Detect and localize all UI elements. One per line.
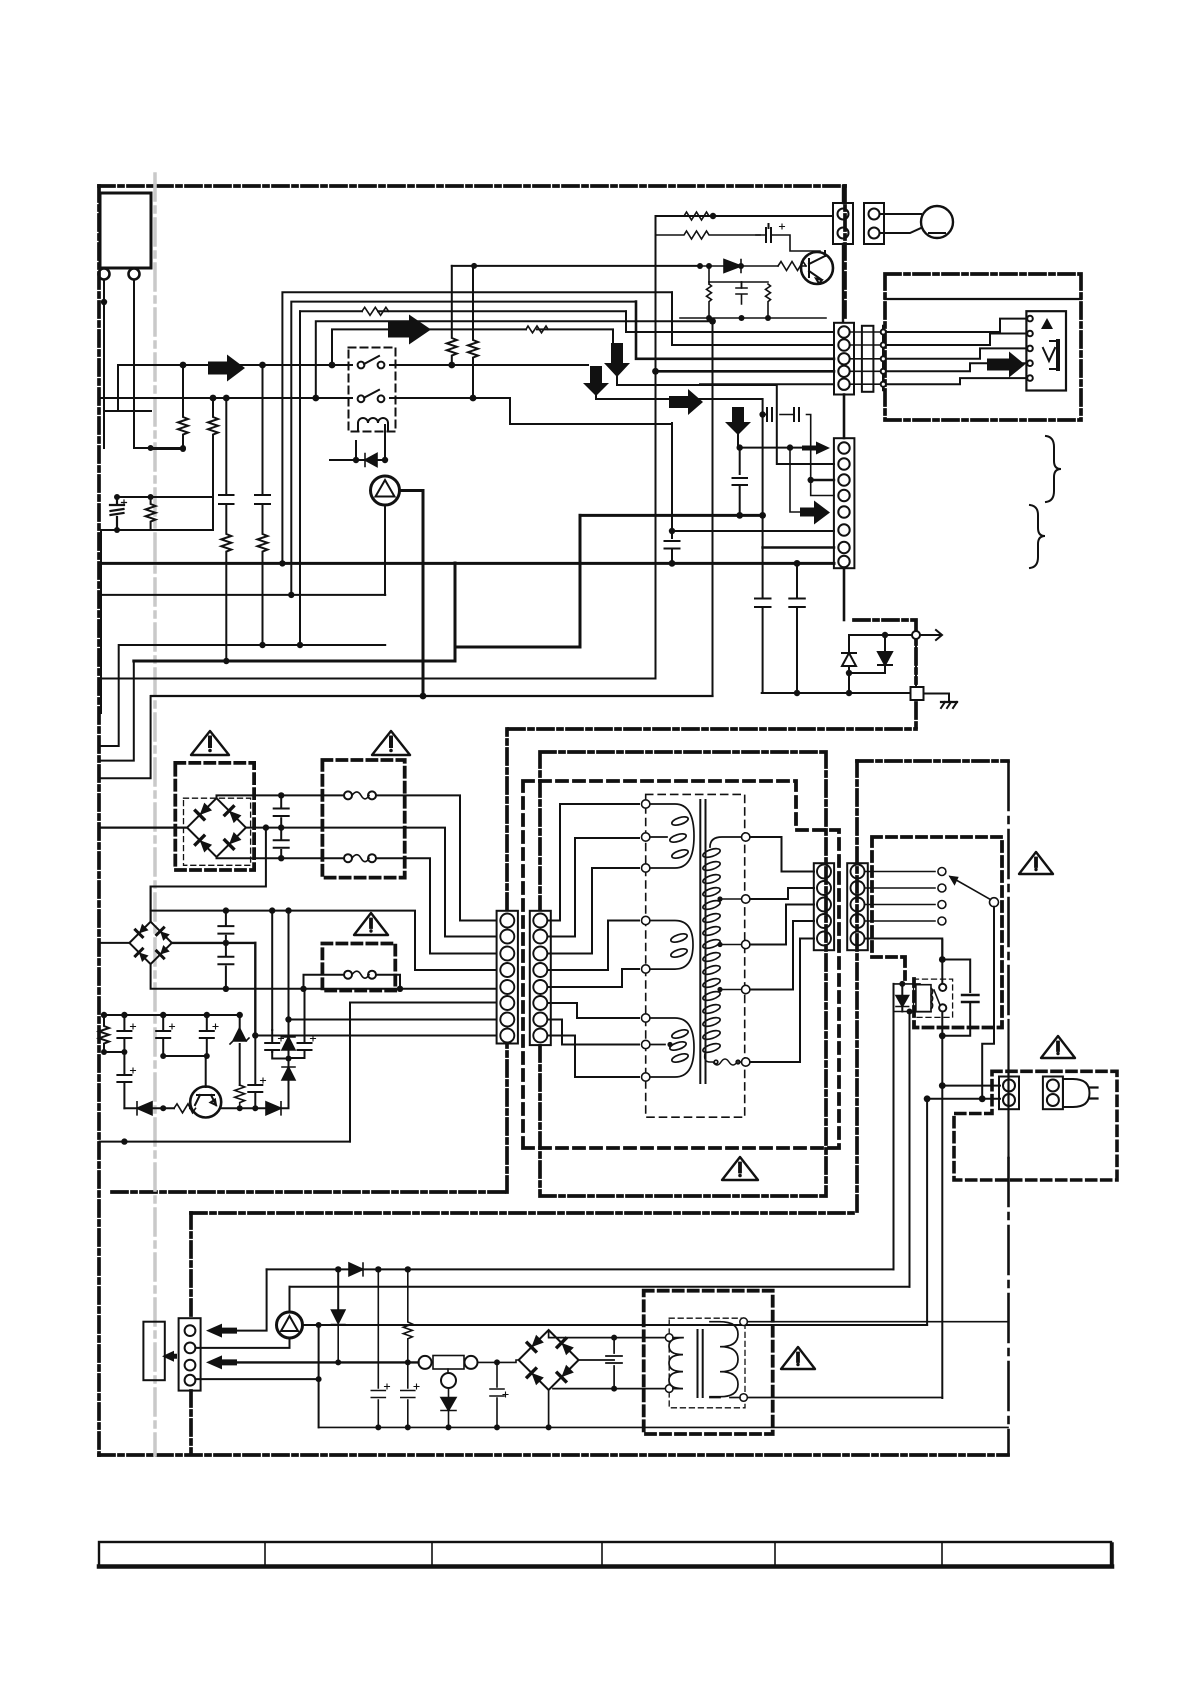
bridge1 wiring — [99, 792, 496, 936]
resistor x=104 — [99, 1015, 124, 1052]
core — [700, 800, 705, 1083]
long wires down — [893, 984, 895, 1270]
bridge 3 — [519, 1330, 579, 1390]
primary taps — [642, 800, 650, 1081]
motor — [921, 206, 953, 238]
right of transistor — [221, 1080, 289, 1108]
left border — [97, 186, 101, 1455]
down arrow3 stem to cap to thick rail — [733, 434, 748, 515]
wires conn2 right to transformer primary taps — [548, 804, 640, 1077]
thick right arrow into volume box — [987, 352, 1025, 378]
small circle column — [882, 326, 885, 390]
wires after arrows — [596, 213, 834, 679]
IC box top-left — [99, 193, 152, 448]
AC inlet connector — [999, 1077, 1098, 1110]
relay dashed box — [349, 348, 396, 432]
core — [698, 1330, 703, 1397]
diode left — [896, 996, 909, 1007]
cap x=305.5 — [289, 989, 312, 1058]
rail y=988.8 — [151, 964, 496, 989]
top area wires — [99, 292, 713, 661]
transistor cluster top right — [656, 215, 834, 217]
resistor on wire3 — [362, 307, 389, 315]
warning triangle above fuse 1 — [372, 731, 410, 755]
warning triangle below transformer — [722, 1157, 758, 1180]
warning triangle above fuse 2 — [354, 913, 388, 935]
transformer2 right wires — [747, 1322, 1008, 1398]
bottom rail — [319, 1426, 1008, 1428]
transformer T1 — [649, 800, 742, 1083]
bias feed wire y=266 with verticals — [447, 263, 700, 398]
right lower border (thin dash-dot) — [1007, 762, 1010, 1020]
connector 1 to connector 2 link — [843, 395, 846, 439]
inner top line — [885, 298, 1081, 300]
secondary coil (right, bulge right) — [710, 1322, 738, 1397]
selector wires and contacts — [865, 868, 999, 1099]
left rect + connector — [143, 1322, 164, 1381]
cap x=207 — [200, 1015, 214, 1056]
arrow row5 — [800, 501, 830, 525]
wire into thermal — [478, 1360, 519, 1362]
switch line 2 — [99, 398, 672, 424]
verticals down — [271, 911, 273, 1030]
pin wires down — [103, 280, 105, 448]
connector circle4 wire — [196, 1378, 319, 1380]
resistor — [146, 497, 156, 530]
thick rail y=563.4 — [455, 562, 834, 565]
bottom section — [143, 1263, 909, 1391]
thick arrow right on switch wire1 — [208, 355, 245, 382]
coil to diode wires — [356, 425, 385, 460]
power switch box top — [857, 759, 1008, 763]
thick rail y=515.4 — [580, 514, 763, 517]
long left wires — [99, 318, 716, 778]
motor connector boxes — [833, 203, 953, 244]
bracket bar — [1056, 341, 1060, 369]
big down arrow 1 — [604, 343, 630, 377]
wires from small circles to box — [886, 319, 1027, 332]
wire y=266 with diode and resistor to transistor — [700, 265, 806, 267]
fuse box 2 — [322, 944, 395, 991]
verticals going down to transformer area — [712, 321, 714, 696]
bridge 1 dashed boxes — [175, 763, 254, 870]
shield left vertical mid section — [505, 729, 509, 1192]
AC dashed box — [954, 1071, 1117, 1180]
big dashed box around transformer — [523, 781, 839, 1148]
diode x=338.2 — [337, 1269, 339, 1310]
diode under relay — [365, 454, 377, 467]
big right arrow mid — [669, 389, 703, 415]
inner bottom box left — [189, 1213, 193, 1452]
power switch box left / inner bottom right edge — [855, 761, 859, 1213]
cap right — [962, 995, 979, 1002]
vertical x=378.3 with cap — [371, 1269, 385, 1427]
opto right corner down — [303, 1325, 319, 1427]
cap x=124 — [117, 1015, 131, 1052]
shield stub to ground square — [854, 620, 916, 729]
opto triac circle — [371, 476, 400, 505]
cap+res chain x=262 — [255, 365, 270, 645]
connector strip 2 (8 circles) — [834, 438, 855, 620]
up triangle — [1041, 318, 1053, 329]
fuse box 1 — [322, 760, 404, 878]
cap+res chain x=226 — [219, 398, 234, 661]
long wires A-D joining bottom — [267, 1268, 894, 1270]
resistor x=240 — [235, 1085, 245, 1108]
cap x=497 — [490, 1362, 504, 1427]
warning triangle bottom — [781, 1347, 815, 1369]
wires into AC inlet — [927, 1086, 1000, 1099]
connector strip 1 (5 circles) — [834, 323, 886, 438]
left small cluster — [99, 445, 213, 713]
secondary outline top — [710, 837, 742, 847]
bridge rectifier 1 — [187, 798, 246, 857]
primary group 1 outline — [649, 804, 694, 868]
vertical x=407.8 resistor + cap — [401, 1269, 415, 1427]
warning triangle right of selector — [1019, 852, 1053, 874]
thick wire row3 y=1362.4 — [238, 1361, 419, 1363]
warning triangle above bridge 1 — [191, 731, 229, 755]
zener B filled down — [878, 652, 892, 665]
diode right y=1108 — [266, 1102, 281, 1115]
connector feed rows lower — [350, 1003, 496, 1142]
staircase corners going right — [282, 292, 672, 563]
row1 via arrow — [740, 447, 816, 449]
wires left of motor connector — [842, 186, 844, 322]
resistor x=183 — [151, 365, 188, 449]
transformer 2 — [644, 1291, 773, 1434]
cap x=163 — [156, 1015, 207, 1056]
braces — [1030, 436, 1061, 568]
top rail — [104, 1014, 240, 1016]
narrow ribbon box — [862, 326, 874, 392]
warning triangle above AC inlet — [1041, 1036, 1075, 1058]
zener pair + ground — [842, 630, 957, 708]
thick L structures mid — [454, 563, 457, 661]
wire (switch line 1) — [118, 364, 352, 366]
ground symbol — [941, 701, 957, 703]
bridge rectifier 2 — [99, 887, 496, 1038]
right motor control box content — [885, 299, 1081, 391]
base row y=1108 — [124, 1107, 191, 1109]
transformer dashed box — [646, 794, 745, 1117]
row5 wire to vertical — [865, 939, 943, 960]
zener x=240 — [230, 1028, 249, 1044]
shield boundary horizontal above bottom section — [112, 1190, 507, 1194]
plug — [1043, 1077, 1063, 1110]
thermal protector — [419, 1356, 432, 1369]
esd square — [911, 687, 924, 700]
secondary petals — [702, 847, 721, 859]
lower-left regulator cluster — [99, 989, 316, 1118]
junction dots on switch lines — [180, 362, 187, 369]
middle connector pair — [497, 911, 551, 1045]
relay switches — [330, 356, 388, 463]
rail y=910.6 — [151, 911, 496, 970]
wires rows into conn1 left — [626, 311, 834, 384]
top border — [99, 184, 845, 188]
transistor — [801, 252, 833, 284]
wire corners into connector rows — [672, 292, 834, 345]
primary coil (left, bulge left) — [669, 1338, 683, 1389]
relay 2 area — [894, 940, 1001, 1398]
volume unit box — [1026, 311, 1066, 390]
wire A corner down to arrow row1 — [237, 1269, 267, 1330]
wire bridge bottom to rail 1388 — [553, 1388, 614, 1390]
inner bottom box top — [191, 1211, 857, 1215]
caps x=281.2 — [274, 795, 289, 858]
resistor x=213 — [208, 398, 218, 497]
cap x=672 chain — [665, 423, 680, 563]
wires to connector 2 — [455, 408, 911, 696]
primary group 2 outline — [649, 921, 693, 970]
wire from relay switch1 right — [390, 364, 588, 366]
cap x=614 — [606, 1338, 622, 1389]
big down arrow 3 — [725, 407, 751, 435]
group1 petals — [671, 815, 689, 827]
relay coil box — [916, 985, 931, 1012]
opto 2 — [277, 1312, 303, 1338]
cap x=254.5 — [248, 1036, 262, 1109]
right connector pair A/B — [814, 863, 868, 950]
inner mid dash-dot box — [540, 752, 826, 1196]
relay coil — [358, 418, 388, 431]
short links — [850, 332, 880, 384]
relay light dashed box — [914, 979, 953, 1017]
thick arrow right on wire5 area — [388, 315, 431, 345]
bottom border — [99, 1453, 1008, 1457]
top-right vertical border piece — [843, 186, 847, 322]
diode stack x=289.6 — [282, 1037, 295, 1050]
big down arrow 2 — [583, 366, 609, 396]
vertical x=656 from top border down — [655, 216, 657, 679]
secondary bottom squiggle — [705, 1053, 741, 1065]
diode on wire A — [349, 1263, 363, 1276]
V mark — [1043, 348, 1055, 361]
gray center dash-dot line — [153, 174, 157, 1455]
main block boundary (dash-dot) — [99, 186, 1081, 1455]
rail top y=282 and bottom y=318 — [680, 282, 826, 318]
caps pair chain to row4 — [763, 415, 834, 496]
resistor on arrow wire — [526, 326, 548, 333]
primary group 3 outline — [649, 1018, 694, 1077]
cap x=272 — [265, 1030, 279, 1052]
bottom table — [99, 1542, 1112, 1567]
right motor box dash-dot — [885, 274, 1081, 420]
shield top mid section — [509, 727, 916, 731]
secondary tap stubs — [720, 899, 742, 990]
secondary taps — [742, 833, 750, 1066]
electrolytic cap — [110, 497, 124, 530]
relay switch — [939, 984, 946, 991]
pin circles — [99, 269, 110, 280]
caps x=225.9 — [218, 911, 233, 989]
transistor PNP — [190, 1087, 221, 1118]
zener A outline up — [842, 653, 856, 666]
wire C to relay — [319, 1324, 928, 1326]
wires secondary taps to right connector A — [750, 837, 814, 1062]
thick dashed box around selector — [872, 837, 1002, 1028]
